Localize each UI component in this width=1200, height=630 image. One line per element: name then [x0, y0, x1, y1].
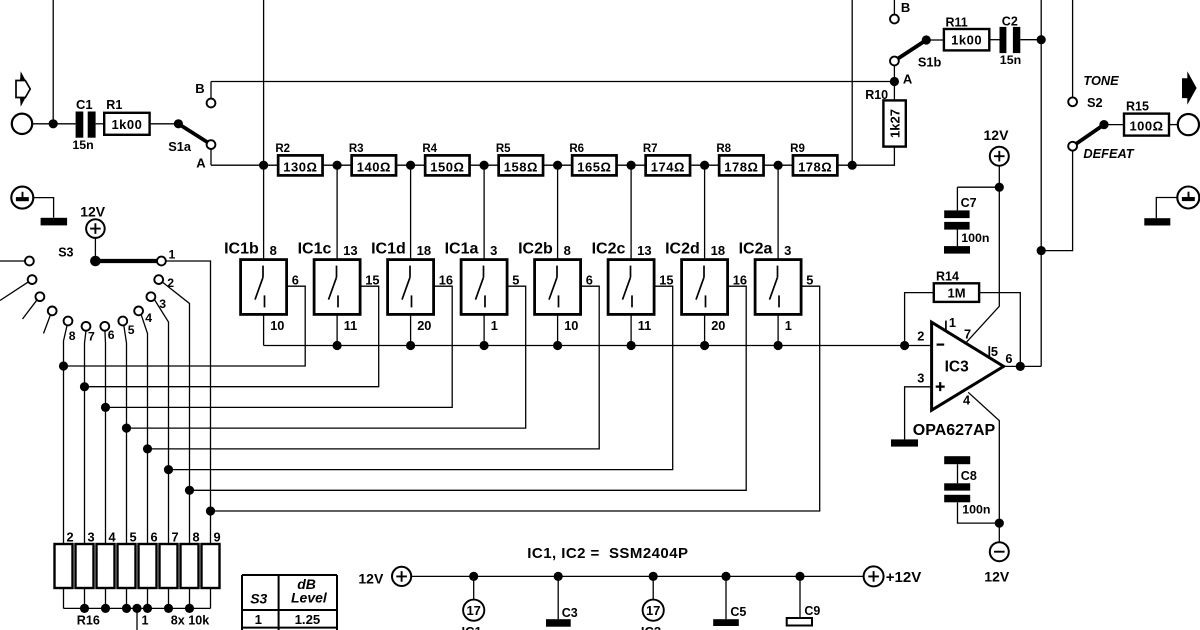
- svg-text:16: 16: [439, 273, 453, 288]
- svg-text:17: 17: [466, 603, 480, 618]
- svg-text:5: 5: [128, 323, 135, 337]
- svg-text:R5: R5: [496, 143, 511, 155]
- svg-text:IC1: IC1: [462, 624, 482, 630]
- svg-text:C7: C7: [961, 196, 977, 210]
- svg-text:15n: 15n: [1000, 53, 1021, 67]
- svg-text:5: 5: [130, 529, 137, 544]
- svg-text:C9: C9: [804, 604, 820, 618]
- svg-text:R8: R8: [716, 143, 731, 155]
- svg-text:100n: 100n: [962, 503, 990, 517]
- svg-text:178Ω: 178Ω: [724, 159, 758, 174]
- svg-text:1.25: 1.25: [295, 612, 321, 627]
- svg-text:11: 11: [638, 318, 652, 333]
- svg-text:C8: C8: [961, 469, 977, 483]
- svg-text:C3: C3: [562, 606, 578, 620]
- svg-text:IC2b: IC2b: [518, 241, 553, 258]
- svg-text:R6: R6: [569, 143, 584, 155]
- svg-text:16: 16: [733, 273, 747, 288]
- svg-text:R14: R14: [936, 269, 959, 283]
- svg-text:4: 4: [109, 529, 117, 544]
- svg-text:8: 8: [193, 529, 200, 544]
- svg-text:8: 8: [564, 243, 571, 258]
- svg-text:1: 1: [949, 315, 956, 330]
- svg-text:15n: 15n: [72, 138, 93, 152]
- svg-text:R9: R9: [790, 143, 805, 155]
- svg-text:158Ω: 158Ω: [504, 159, 538, 174]
- svg-text:A: A: [903, 72, 913, 87]
- svg-text:S3: S3: [58, 245, 73, 259]
- svg-text:6: 6: [1005, 351, 1012, 366]
- svg-text:10: 10: [564, 318, 578, 333]
- svg-text:R4: R4: [422, 143, 437, 155]
- svg-text:S2: S2: [1087, 95, 1103, 110]
- svg-text:R2: R2: [275, 143, 290, 155]
- svg-text:140Ω: 140Ω: [357, 159, 391, 174]
- svg-text:TONE: TONE: [1083, 73, 1119, 88]
- svg-text:5: 5: [512, 273, 519, 288]
- svg-text:9: 9: [214, 529, 221, 544]
- svg-text:B: B: [195, 81, 204, 96]
- svg-text:2: 2: [917, 328, 924, 343]
- svg-text:C5: C5: [730, 605, 746, 619]
- svg-text:S1b: S1b: [918, 55, 942, 70]
- svg-text:10: 10: [270, 318, 284, 333]
- svg-text:R16: R16: [77, 613, 100, 627]
- svg-text:S1a: S1a: [168, 139, 192, 154]
- svg-text:R3: R3: [349, 143, 364, 155]
- svg-text:B: B: [901, 0, 910, 15]
- svg-text:R7: R7: [643, 143, 658, 155]
- svg-text:100Ω: 100Ω: [1129, 118, 1163, 133]
- svg-text:IC3: IC3: [945, 358, 970, 375]
- svg-text:12V: 12V: [358, 570, 384, 586]
- svg-text:R1: R1: [106, 98, 122, 112]
- svg-text:IC1, IC2 = SSM2404P: IC1, IC2 = SSM2404P: [527, 545, 688, 562]
- svg-text:178Ω: 178Ω: [798, 159, 832, 174]
- svg-text:1k27: 1k27: [887, 109, 902, 138]
- svg-text:15: 15: [365, 273, 379, 288]
- svg-text:IC2c: IC2c: [592, 241, 626, 258]
- svg-text:IC1b: IC1b: [224, 241, 259, 258]
- svg-text:17: 17: [646, 603, 660, 618]
- svg-text:6: 6: [151, 529, 158, 544]
- svg-text:1: 1: [142, 613, 149, 627]
- svg-text:1M: 1M: [947, 286, 965, 301]
- svg-text:OPA627AP: OPA627AP: [913, 422, 996, 439]
- svg-text:1: 1: [169, 248, 176, 262]
- svg-text:3: 3: [490, 243, 497, 258]
- svg-text:13: 13: [343, 243, 357, 258]
- svg-text:150Ω: 150Ω: [430, 159, 464, 174]
- svg-text:12V: 12V: [984, 568, 1010, 584]
- svg-text:13: 13: [637, 243, 651, 258]
- svg-text:IC1a: IC1a: [445, 241, 479, 258]
- svg-text:3: 3: [159, 297, 166, 311]
- svg-text:1: 1: [255, 612, 262, 627]
- svg-text:1: 1: [491, 318, 498, 333]
- svg-text:6: 6: [586, 273, 593, 288]
- svg-text:1k00: 1k00: [111, 117, 142, 132]
- svg-text:3: 3: [784, 243, 791, 258]
- svg-text:1: 1: [785, 318, 792, 333]
- svg-text:2: 2: [167, 276, 174, 290]
- svg-text:18: 18: [417, 243, 431, 258]
- svg-text:4: 4: [963, 392, 971, 407]
- svg-text:2: 2: [67, 529, 74, 544]
- svg-text:3: 3: [917, 371, 924, 386]
- svg-text:7: 7: [88, 330, 95, 344]
- svg-text:8: 8: [69, 329, 76, 343]
- svg-text:C2: C2: [1002, 14, 1018, 28]
- svg-text:S3: S3: [250, 590, 267, 606]
- svg-text:20: 20: [711, 318, 725, 333]
- svg-text:11: 11: [344, 318, 358, 333]
- svg-text:8: 8: [270, 243, 277, 258]
- svg-text:IC2: IC2: [641, 624, 661, 630]
- svg-text:7: 7: [964, 326, 971, 341]
- svg-text:6: 6: [292, 273, 299, 288]
- svg-text:15: 15: [659, 273, 673, 288]
- svg-text:12V: 12V: [984, 127, 1010, 143]
- svg-text:7: 7: [172, 529, 179, 544]
- svg-text:18: 18: [711, 243, 725, 258]
- svg-text:130Ω: 130Ω: [283, 159, 317, 174]
- svg-text:165Ω: 165Ω: [577, 159, 611, 174]
- svg-text:1k00: 1k00: [951, 33, 982, 48]
- svg-text:12V: 12V: [80, 204, 106, 220]
- svg-text:Level: Level: [291, 590, 328, 606]
- svg-text:3: 3: [88, 529, 95, 544]
- svg-text:DEFEAT: DEFEAT: [1083, 146, 1134, 161]
- svg-text:R15: R15: [1126, 100, 1149, 114]
- svg-text:+12V: +12V: [886, 569, 921, 586]
- svg-text:IC1d: IC1d: [371, 241, 406, 258]
- svg-text:IC2d: IC2d: [665, 241, 700, 258]
- svg-text:8x 10k: 8x 10k: [171, 613, 211, 627]
- svg-text:174Ω: 174Ω: [651, 159, 685, 174]
- svg-text:100n: 100n: [961, 231, 989, 245]
- svg-text:4: 4: [145, 311, 152, 325]
- svg-text:6: 6: [108, 328, 115, 342]
- svg-text:IC2a: IC2a: [739, 241, 773, 258]
- svg-text:R10: R10: [865, 88, 888, 102]
- svg-text:5: 5: [991, 344, 998, 359]
- svg-text:C1: C1: [76, 97, 93, 112]
- svg-text:R11: R11: [946, 15, 968, 29]
- svg-text:A: A: [196, 156, 206, 171]
- svg-text:5: 5: [806, 273, 813, 288]
- svg-text:IC1c: IC1c: [298, 241, 332, 258]
- svg-text:20: 20: [417, 318, 431, 333]
